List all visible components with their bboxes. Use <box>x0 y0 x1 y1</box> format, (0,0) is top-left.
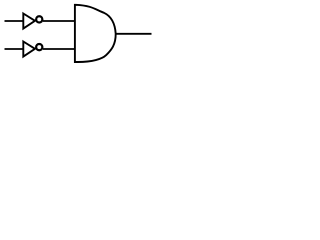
wire input A <box>5 20 24 22</box>
inverter U1 bubble <box>36 16 42 22</box>
wire output Y <box>115 33 151 35</box>
inverter U2 bubble <box>36 44 42 50</box>
wire input B <box>5 48 24 50</box>
wire U2 output to AND <box>43 48 75 50</box>
inverter U2 triangle <box>23 42 35 57</box>
AND gate U3 body <box>75 5 116 62</box>
wire U1 output to AND <box>43 20 75 22</box>
inverter U1 triangle <box>23 14 35 29</box>
